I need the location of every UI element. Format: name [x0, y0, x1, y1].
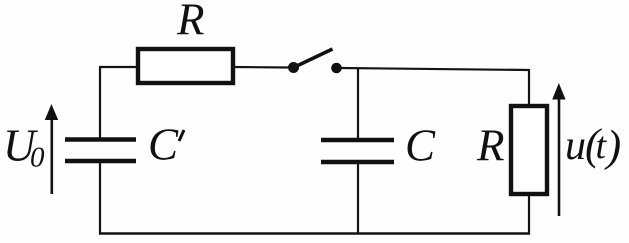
- resistor R (top horizontal box): [138, 49, 233, 83]
- capacitor C' plates: [65, 140, 136, 162]
- switch lever: [294, 49, 333, 68]
- source arrow U0: [45, 104, 58, 194]
- wire bottom bus: [99, 232, 530, 235]
- wire left vertical branch (top segment): [99, 67, 101, 138]
- svg-text:): ): [604, 122, 622, 171]
- wire middle vertical branch (bottom segment): [357, 164, 359, 235]
- wire right vertical branch (top segment): [528, 69, 530, 105]
- svg-text:R: R: [176, 0, 205, 45]
- wire middle vertical branch (top segment): [357, 69, 359, 139]
- wire switch to top-right corner: [340, 68, 529, 70]
- switch contact dots (open switch): [288, 62, 342, 73]
- wire left vertical branch (bottom segment): [99, 163, 101, 235]
- resistor R (right vertical load box): [511, 106, 547, 194]
- wire right vertical branch (bottom segment): [528, 195, 530, 234]
- svg-text:0: 0: [30, 142, 45, 174]
- wire top left to resistor R1: [99, 66, 137, 68]
- capacitor C plates: [321, 140, 394, 162]
- svg-text:C: C: [148, 120, 179, 170]
- svg-text:C: C: [405, 121, 436, 171]
- svg-text:R: R: [476, 121, 505, 171]
- output arrow u(t): [552, 83, 565, 216]
- svg-text:u: u: [565, 123, 586, 169]
- wire resistor R1 to switch: [234, 66, 289, 69]
